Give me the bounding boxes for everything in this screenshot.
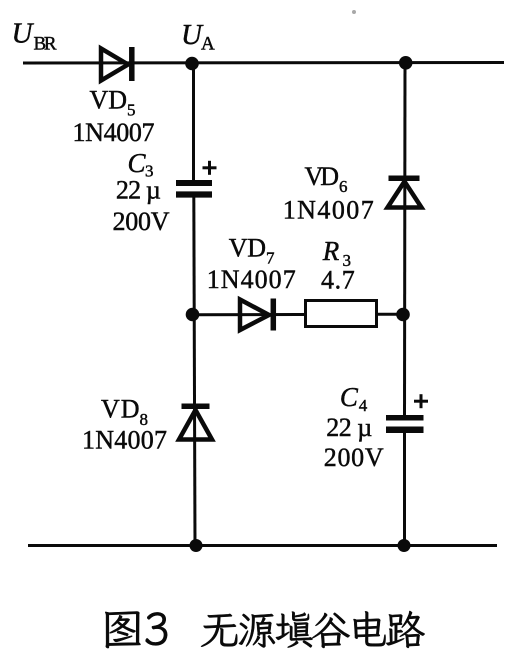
svg-text:22 µ: 22 µ — [116, 176, 161, 205]
svg-text:R: R — [322, 236, 340, 266]
svg-text:1N4007: 1N4007 — [82, 426, 167, 455]
svg-text:C: C — [128, 148, 147, 178]
svg-text:5: 5 — [127, 101, 136, 120]
svg-text:200V: 200V — [324, 443, 384, 472]
svg-text:VD: VD — [229, 234, 266, 263]
svg-text:VD: VD — [305, 162, 340, 191]
svg-text:A: A — [201, 34, 215, 55]
svg-text:200V: 200V — [113, 207, 170, 236]
svg-text:4.7: 4.7 — [321, 266, 355, 295]
svg-text:VD: VD — [101, 394, 140, 423]
svg-text:C: C — [340, 382, 359, 412]
svg-text:1N4007: 1N4007 — [207, 265, 296, 294]
svg-text:BR: BR — [34, 34, 57, 55]
svg-text:22 µ: 22 µ — [326, 413, 372, 442]
svg-text:VD: VD — [90, 86, 128, 115]
svg-text:1N4007: 1N4007 — [73, 118, 155, 147]
svg-text:1N4007: 1N4007 — [283, 195, 374, 224]
svg-text:U: U — [12, 18, 35, 50]
svg-text:6: 6 — [339, 177, 348, 196]
